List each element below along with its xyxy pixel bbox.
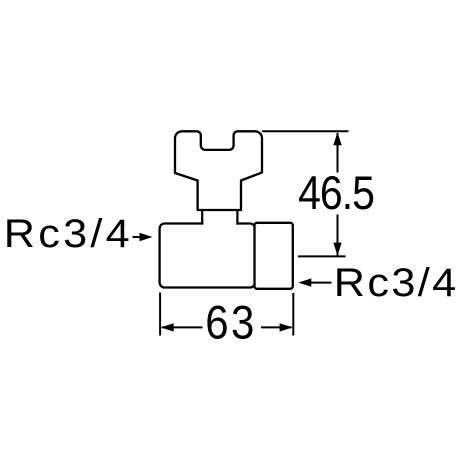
svg-text:63: 63 xyxy=(205,298,257,350)
svg-text:Rc3/4: Rc3/4 xyxy=(4,210,133,255)
svg-text:46.5: 46.5 xyxy=(298,167,374,219)
svg-text:Rc3/4: Rc3/4 xyxy=(334,259,459,304)
